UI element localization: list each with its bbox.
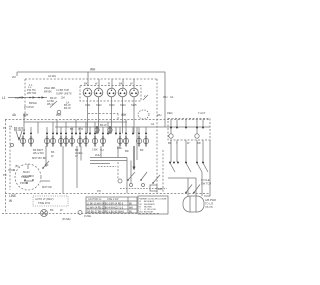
svg-text:(B): (B): [15, 164, 19, 168]
svg-text:BK BLACK: BK BLACK: [144, 200, 155, 203]
svg-text:BK: BK: [119, 82, 123, 86]
svg-text:WH: WH: [23, 113, 29, 117]
svg-text:Y: Y: [176, 141, 178, 145]
svg-text:1 1: 1 1: [29, 83, 33, 87]
svg-text:PROG: PROG: [20, 181, 28, 185]
svg-text:PL: PL: [3, 126, 7, 130]
svg-text:2 BK: 2 BK: [92, 148, 98, 152]
svg-text:CAUTION L1: CAUTION L1: [88, 198, 102, 201]
svg-text:SW5: SW5: [131, 103, 137, 107]
svg-text:BK: BK: [140, 148, 144, 152]
svg-text:BK: BK: [51, 150, 55, 154]
svg-text:BK W: BK W: [100, 123, 107, 127]
svg-text:(FUSE): (FUSE): [62, 217, 71, 221]
svg-text:4A: 4A: [9, 125, 12, 129]
svg-text:BU-2 BR-14 RD-6: BU-2 BR-14 RD-6: [105, 203, 124, 205]
svg-text:L2 WH-14 RD-12: L2 WH-14 RD-12: [87, 207, 105, 209]
svg-text:PU: PU: [3, 173, 7, 177]
svg-text:BK W: BK W: [64, 106, 71, 110]
svg-text:RD-1 BU-63 WH-8: RD-1 BU-63 WH-8: [105, 211, 125, 213]
svg-text:BK-4 WH-22 YL-3: BK-4 WH-22 YL-3: [105, 207, 124, 209]
svg-text:BR: BR: [125, 149, 129, 153]
svg-text:+BK: +BK: [158, 187, 163, 191]
svg-text:WH: WH: [56, 113, 62, 117]
svg-text:BK: BK: [168, 141, 172, 145]
svg-text:2M: 2M: [61, 96, 65, 100]
svg-text:WIRE COLOR CODE: WIRE COLOR CODE: [140, 198, 168, 200]
svg-text:BK: BK: [45, 163, 49, 167]
svg-text:L1 BR TOP: L1 BR TOP: [56, 88, 69, 92]
svg-text:BK W R: BK W R: [14, 126, 23, 130]
svg-text:2WH 1BK: 2WH 1BK: [44, 86, 56, 90]
svg-text:LT DISO: LT DISO: [24, 105, 34, 109]
svg-text:BK: BK: [84, 82, 88, 86]
svg-text:TIME PO2: TIME PO2: [38, 201, 51, 205]
svg-text:BU: BU: [140, 212, 143, 214]
svg-text:DBL: DBL: [117, 146, 123, 150]
svg-text:W R: W R: [78, 127, 83, 131]
svg-text:4A: 4A: [151, 122, 154, 126]
svg-text:MAIN: MAIN: [23, 170, 30, 174]
svg-text:BR: BR: [197, 141, 201, 145]
svg-text:BK: BK: [70, 127, 74, 131]
svg-text:WH 2 BU: WH 2 BU: [33, 151, 44, 155]
svg-text:BK W: BK W: [50, 96, 57, 100]
svg-text:FUSE: FUSE: [84, 214, 91, 218]
svg-text:RED: RED: [167, 111, 173, 115]
svg-text:L1: L1: [2, 96, 6, 100]
svg-text:SW1: SW1: [85, 103, 91, 107]
svg-text:CYCLE: CYCLE: [201, 178, 210, 182]
svg-text:WH: WH: [157, 113, 161, 117]
svg-text:WH 2: WH 2: [47, 102, 54, 106]
svg-text:SURF UNITS: SURF UNITS: [56, 92, 72, 96]
svg-text:BU: BU: [129, 211, 133, 213]
svg-text:TO L/S: TO L/S: [205, 202, 213, 206]
svg-text:BU BLUE: BU BLUE: [144, 212, 154, 214]
svg-text:SW2: SW2: [96, 103, 102, 107]
svg-text:BK: BK: [50, 208, 54, 212]
svg-text:BK: BK: [129, 203, 133, 205]
svg-text:ZHU: ZHU: [95, 153, 100, 157]
svg-text:LINE 2 SW: LINE 2 SW: [107, 199, 119, 201]
svg-text:AUTO LT (REV): AUTO LT (REV): [35, 197, 54, 201]
svg-text:SW4: SW4: [120, 103, 126, 107]
svg-text:WH: WH: [163, 95, 167, 99]
svg-text:A/B PWR: A/B PWR: [205, 198, 216, 202]
svg-text:MOT BU BK: MOT BU BK: [32, 156, 46, 160]
svg-text:4A WH: 4A WH: [48, 74, 56, 78]
svg-text:BR BK: BR BK: [44, 90, 52, 94]
svg-text:LT: LT: [75, 154, 78, 158]
svg-text:4A: 4A: [170, 95, 173, 99]
svg-text:GR BU-27 BR-15: GR BU-27 BR-15: [87, 211, 105, 213]
svg-text:MOTOR: MOTOR: [42, 185, 52, 189]
svg-text:R: R: [108, 82, 110, 86]
svg-text:WH: WH: [90, 68, 96, 72]
svg-text:L1 BK-16 WH-24: L1 BK-16 WH-24: [87, 203, 105, 205]
svg-text:W: W: [9, 199, 12, 203]
svg-text:WH: WH: [121, 113, 127, 117]
svg-text:BKWH: BKWH: [29, 101, 37, 105]
svg-text:WR SW: WR SW: [27, 91, 37, 95]
svg-text:WH: WH: [129, 207, 133, 209]
svg-text:PO: PO: [97, 189, 101, 193]
svg-text:VS VS: VS VS: [205, 205, 213, 209]
svg-text:T-ACT: T-ACT: [198, 111, 206, 115]
svg-text:TIMER: TIMER: [21, 175, 29, 179]
svg-text:SW3: SW3: [109, 103, 115, 107]
svg-text:TH: TH: [100, 148, 104, 152]
svg-text:SW TCH: SW TCH: [201, 182, 211, 186]
svg-text:LINE: LINE: [9, 194, 16, 198]
svg-text:TM: TM: [15, 96, 19, 100]
svg-text:2M: 2M: [12, 75, 16, 79]
